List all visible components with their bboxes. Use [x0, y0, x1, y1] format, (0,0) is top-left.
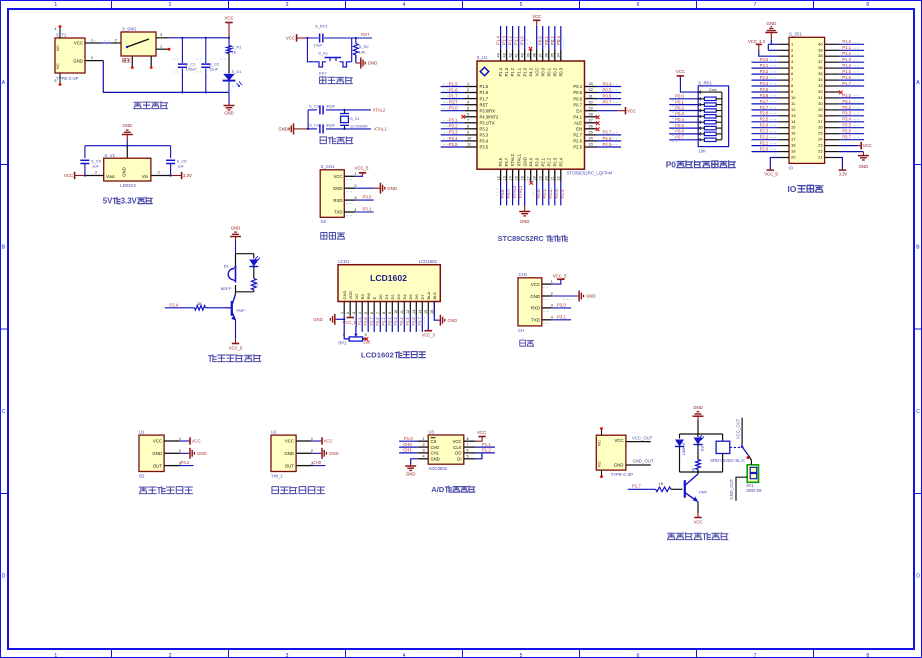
caption serial port	[520, 340, 526, 346]
pin 19 U1 bottom	[539, 169, 543, 182]
pin 10 LCD1	[394, 302, 398, 316]
pin 11 U1 left	[465, 143, 477, 147]
svg-text:P0.7: P0.7	[417, 317, 422, 325]
pin 28 U1 right	[585, 113, 597, 117]
svg-text:P3.4: P3.4	[480, 139, 489, 144]
svg-text:BZ: BZ	[139, 474, 145, 479]
svg-text:5: 5	[520, 653, 523, 658]
svg-text:14: 14	[418, 310, 422, 314]
no-connect marker U1 pin 17	[530, 181, 534, 185]
pin 27 JD1 right	[825, 121, 840, 123]
svg-text:D7: D7	[420, 294, 425, 300]
net label P3.7 U1 bottom	[506, 189, 511, 198]
compile marks RP1	[672, 100, 678, 102]
svg-text:D3: D3	[396, 294, 401, 300]
wire LED to 1K relay	[697, 445, 699, 460]
svg-text:P1.4: P1.4	[498, 67, 503, 76]
svg-text:CH0: CH0	[313, 460, 322, 465]
pin 43 U1 top	[502, 50, 506, 61]
svg-text:7: 7	[754, 653, 757, 658]
svg-text:31: 31	[818, 95, 823, 100]
svg-text:VCC: VCC	[286, 36, 295, 41]
svg-text:10uF: 10uF	[209, 67, 219, 72]
wire ldo top rail	[85, 140, 171, 158]
svg-text:VCC: VCC	[676, 69, 685, 74]
wire top rail power	[168, 37, 229, 39]
resistor R5 in RP1	[698, 121, 722, 124]
wire U1 bottom pin 12	[500, 182, 502, 206]
net label P0.0 LCD	[375, 317, 380, 326]
pin 12 JD1 left	[778, 109, 789, 111]
svg-text:S_C3: S_C3	[309, 104, 320, 109]
svg-text:P3.1: P3.1	[557, 314, 566, 319]
svg-text:P2.7: P2.7	[573, 133, 582, 138]
power port VCC power circuit	[225, 22, 233, 24]
svg-text:P2.7: P2.7	[369, 317, 374, 325]
wire XTAL1 bottom	[308, 128, 371, 130]
pin 5 LCD1	[364, 302, 368, 316]
svg-text:GND: GND	[284, 451, 294, 456]
resistor R3 in RP1	[698, 109, 722, 112]
pin 29 JD1 right	[825, 109, 840, 111]
net label P0.6 LCD	[411, 317, 416, 325]
svg-text:8: 8	[467, 437, 469, 441]
svg-text:P3.2: P3.2	[760, 69, 769, 74]
svg-text:P3.5: P3.5	[480, 145, 489, 150]
svg-text:P1.3: P1.3	[504, 67, 509, 76]
pin 9 LCD1	[388, 302, 392, 316]
svg-text:VCC: VCC	[694, 520, 703, 525]
svg-text:14: 14	[508, 176, 512, 180]
svg-text:D5: D5	[408, 294, 413, 300]
svg-text:VCC_5: VCC_5	[764, 172, 778, 177]
wire U1 top pin 43	[506, 26, 508, 50]
svg-text:D: D	[916, 574, 920, 580]
svg-text:12: 12	[791, 107, 796, 112]
svg-text:12: 12	[406, 310, 410, 314]
svg-text:2: 2	[467, 88, 469, 92]
svg-text:1: 1	[551, 280, 553, 284]
svg-text:P2.1: P2.1	[760, 141, 769, 146]
svg-text:CH1: CH1	[519, 272, 528, 277]
net label P0.3 U1 top	[556, 36, 561, 45]
svg-text:P2.3: P2.3	[554, 189, 559, 198]
svg-text:1: 1	[179, 437, 181, 441]
svg-text:NC: NC	[598, 440, 602, 446]
svg-text:2: 2	[346, 312, 350, 314]
wire U1 right pin 30	[597, 104, 622, 106]
power port VCC U1	[189, 437, 201, 444]
svg-text:GND: GND	[313, 317, 323, 322]
pin 3 JD1 left	[778, 55, 789, 57]
svg-text:LED: LED	[700, 444, 704, 452]
ground GND crystal	[278, 123, 308, 134]
junction crystal top	[343, 109, 345, 111]
svg-text:6: 6	[467, 113, 469, 117]
power port VCC_5 JD1	[764, 170, 778, 176]
svg-text:P3.3: P3.3	[842, 111, 851, 116]
svg-text:24: 24	[589, 137, 593, 141]
svg-text:P2.0: P2.0	[536, 189, 541, 198]
pin 3 LCD1	[352, 302, 356, 316]
pin 26 U1 right	[585, 125, 597, 129]
svg-text:2: 2	[95, 171, 97, 175]
svg-text:S_D1: S_D1	[232, 69, 243, 74]
svg-text:GND: GND	[520, 219, 530, 224]
caption reset circuit	[320, 77, 326, 84]
wire GND to JD1 pins 1 and 2	[768, 40, 778, 51]
wire U1 right pin 23	[597, 146, 622, 148]
svg-text:P1.2: P1.2	[508, 36, 513, 45]
pin 6 U1 left	[465, 113, 477, 117]
wire U1 bottom pin 18	[536, 182, 538, 206]
wire LED to resistor alarm	[253, 267, 255, 279]
svg-text:1K: 1K	[232, 50, 237, 55]
net label VCC_OUT vertical	[735, 418, 740, 439]
svg-text:GND: GND	[197, 451, 207, 456]
wire U1 top pin 35	[554, 26, 556, 50]
svg-text:P2.7: P2.7	[603, 130, 612, 135]
svg-text:10K: 10K	[359, 50, 366, 55]
svg-text:P0.0: P0.0	[538, 36, 543, 45]
svg-text:8: 8	[467, 125, 469, 129]
svg-text:VDD: VDD	[348, 291, 353, 300]
no-connect marker RP1 right	[365, 337, 369, 341]
svg-text:P1.2: P1.2	[482, 448, 491, 453]
svg-text:100uF: 100uF	[186, 67, 198, 72]
svg-text:21: 21	[818, 155, 823, 160]
wire JD1 right pin 38	[840, 55, 865, 57]
power port VCC reset	[286, 34, 308, 41]
pin 25 JD1 right	[825, 133, 840, 135]
pin 3 CH1	[542, 304, 553, 308]
svg-text:OUT: OUT	[285, 463, 294, 468]
svg-text:29: 29	[589, 106, 593, 110]
power port VCC_5 LCD BLA	[422, 315, 436, 337]
svg-text:D: D	[2, 574, 6, 580]
svg-text:18: 18	[791, 143, 796, 148]
net label XTAL2 U1 bottom	[512, 185, 517, 198]
svg-text:40: 40	[521, 53, 525, 57]
svg-text:P1.1: P1.1	[482, 442, 491, 447]
svg-text:VCC: VCC	[627, 108, 636, 113]
wire LCD pin 6	[373, 315, 375, 332]
svg-text:D1: D1	[384, 294, 389, 300]
svg-text:P3.1: P3.1	[449, 118, 458, 123]
svg-text:P1.5: P1.5	[480, 84, 489, 89]
svg-text:RW: RW	[366, 293, 371, 300]
connector S_CH1	[320, 164, 344, 224]
svg-text:P0.6: P0.6	[573, 96, 582, 101]
pin 30 JD1 right	[825, 103, 840, 105]
svg-text:P3.3: P3.3	[449, 130, 458, 135]
wire JD1 right pin 34	[840, 79, 865, 81]
svg-text:VCC_3.3: VCC_3.3	[748, 39, 766, 44]
capacitor S_C6 1uF	[166, 159, 187, 176]
net label P2.5 LCD	[357, 317, 362, 325]
wire R1 to D1	[228, 54, 230, 74]
ground GND ldo top	[122, 123, 133, 140]
svg-text:7: 7	[467, 443, 469, 447]
wire U1 pin3 OUT	[180, 465, 194, 467]
svg-text:GND: GND	[859, 164, 869, 169]
svg-text:P0.2: P0.2	[550, 36, 555, 45]
wire JD1 right pin 39	[840, 49, 865, 51]
compile marks power	[173, 58, 179, 60]
wire U1 EA to VCC	[597, 110, 618, 112]
svg-text:LD03V3: LD03V3	[120, 183, 136, 188]
wire P0.5 to RP1	[669, 127, 699, 129]
svg-text:7: 7	[376, 312, 380, 314]
caption alarm circuit	[209, 355, 217, 362]
wire JD1 right pin 35	[840, 73, 865, 75]
pin 3 U1	[164, 461, 181, 465]
svg-text:3: 3	[352, 312, 356, 314]
resistor 1K relay	[692, 460, 701, 473]
svg-text:GND: GND	[278, 127, 288, 132]
power port VCC_5 LCD VDD	[343, 315, 357, 325]
svg-text:P1.2: P1.2	[842, 51, 851, 56]
wire reset right branch	[351, 38, 353, 62]
svg-text:30: 30	[589, 100, 593, 104]
wire U2 pin1 VCC	[312, 440, 321, 442]
svg-text:2: 2	[179, 449, 181, 453]
svg-text:XTAL2: XTAL2	[510, 153, 515, 166]
svg-text:P3.0: P3.0	[449, 106, 458, 111]
svg-text:VCC: VCC	[531, 282, 540, 287]
wire VCC to RP1 common	[680, 76, 699, 92]
svg-text:7: 7	[754, 2, 757, 8]
resistor 1K relay base	[656, 481, 671, 492]
wire JD1 left pin 13	[752, 115, 779, 117]
svg-text:B1: B1	[224, 264, 230, 269]
svg-text:1uF: 1uF	[92, 164, 99, 169]
module U1 body	[139, 430, 164, 479]
wire VCC to switch	[101, 42, 111, 44]
junction VCC rail	[228, 37, 230, 39]
svg-text:GND: GND	[767, 21, 777, 26]
wire JD1 pin23 VCC	[840, 145, 858, 147]
svg-text:PNP: PNP	[699, 489, 708, 494]
pin 29 U1 right	[585, 106, 597, 110]
ground GND serial	[578, 291, 596, 302]
svg-text:P0.4: P0.4	[399, 317, 404, 326]
ground GND main chip	[519, 206, 530, 224]
svg-text:5: 5	[467, 106, 469, 110]
pin 4 LCD1	[358, 302, 362, 316]
svg-text:P2.4: P2.4	[169, 302, 178, 307]
wire LCD pin 9	[391, 315, 393, 332]
svg-text:1N4007: 1N4007	[682, 442, 686, 455]
pin 4 U1 left	[465, 100, 477, 104]
wire VCC_5 JD1 pin20	[770, 158, 778, 171]
svg-text:LCD1: LCD1	[338, 259, 350, 264]
junction bottom rail C2	[205, 91, 207, 93]
svg-text:GND: GND	[73, 58, 83, 63]
svg-text:RXD: RXD	[333, 198, 342, 203]
pin 22 U1 bottom	[557, 169, 561, 182]
svg-text:2: 2	[91, 56, 93, 60]
svg-text:IO: IO	[789, 166, 794, 171]
LED D2 alarm	[249, 256, 260, 267]
wire JD1 left pin 15	[752, 127, 779, 129]
svg-text:LCD1602: LCD1602	[361, 351, 394, 360]
svg-text:BLA: BLA	[426, 292, 431, 300]
caption power circuit	[134, 102, 142, 108]
pin 1 U3 left	[418, 437, 429, 441]
svg-text:15: 15	[791, 125, 796, 130]
svg-text:P1.7: P1.7	[449, 93, 458, 98]
svg-text:P2.3: P2.3	[552, 157, 557, 166]
svg-text:3: 3	[365, 333, 367, 337]
svg-text:P1.7: P1.7	[632, 484, 641, 489]
svg-text:P3.0: P3.0	[557, 303, 566, 308]
svg-text:4: 4	[551, 316, 553, 320]
svg-text:P2.0: P2.0	[534, 157, 539, 166]
resistor 1K alarm base	[195, 301, 226, 310]
svg-text:4: 4	[423, 454, 425, 458]
svg-text:P3.0/RX: P3.0/RX	[480, 108, 496, 113]
svg-text:GND: GND	[693, 405, 703, 410]
net label P2.3 U1 bottom	[554, 189, 559, 198]
wire U1 right pin 25	[597, 134, 622, 136]
net label P0.5 LCD	[405, 317, 410, 325]
svg-text:P3.0: P3.0	[363, 195, 372, 200]
wire relay bottom rail	[680, 470, 723, 475]
svg-text:6: 6	[370, 312, 374, 314]
svg-text:P1.2: P1.2	[510, 67, 515, 76]
svg-text:P1.6: P1.6	[842, 75, 851, 80]
diode D3 1N4007	[675, 440, 686, 473]
resistor R8 in RP1	[698, 138, 722, 141]
svg-text:2: 2	[115, 39, 117, 43]
no-connect marker contact	[747, 456, 750, 459]
module U2 body	[271, 430, 296, 479]
net label P2.1 U1 bottom	[542, 189, 547, 198]
svg-text:P1.5: P1.5	[449, 81, 458, 86]
pin 20 U1 bottom	[545, 169, 549, 182]
pin 9 JD1 left	[778, 91, 789, 93]
pin 2 CH1	[542, 292, 553, 296]
svg-text:23: 23	[589, 143, 593, 147]
pin 4 CH1	[542, 316, 553, 320]
net label P0.7 LCD	[417, 317, 422, 325]
svg-text:3.3V: 3.3V	[183, 173, 192, 178]
pin 1 S_T1 VCC	[85, 39, 101, 44]
wire LCD pin 14	[421, 315, 423, 332]
svg-text:22: 22	[557, 176, 561, 180]
net label P2.7 LCD	[369, 317, 374, 325]
connector S_T2 TYPE-C-2P relay	[596, 430, 633, 477]
svg-text:27: 27	[589, 119, 593, 123]
wire pin2 to GND	[355, 187, 375, 189]
svg-text:P0.3: P0.3	[393, 317, 398, 325]
pin 2 U1	[164, 449, 181, 453]
svg-text:P3.4: P3.4	[760, 81, 769, 86]
svg-text:P2.2: P2.2	[546, 157, 551, 166]
pin 26 JD1 right	[825, 127, 840, 129]
pin 1 LCD1	[340, 302, 344, 316]
wire U3 CLK P1.1	[476, 446, 495, 448]
relay contact arm	[741, 445, 749, 455]
svg-text:32: 32	[589, 88, 593, 92]
pin 31 JD1 right	[825, 97, 840, 99]
LED S_D1	[223, 69, 243, 87]
wire U1 top pin 34	[560, 26, 562, 50]
pin 15 U1 bottom	[515, 169, 519, 182]
pin 35 U1 top	[551, 50, 555, 61]
wire JD1 pin22 GND	[840, 151, 864, 153]
pin 11 LCD1	[400, 302, 404, 316]
svg-text:28: 28	[589, 113, 593, 117]
pin 44 U1 top	[496, 50, 500, 61]
pin 10 U1 left	[465, 137, 477, 141]
svg-text:NC: NC	[56, 45, 60, 51]
svg-text:37: 37	[539, 53, 543, 57]
pin 10 JD1 left	[778, 97, 789, 99]
net label P2.0 U1 bottom	[536, 189, 541, 198]
svg-text:S_RP1: S_RP1	[698, 80, 712, 85]
svg-text:P0.3: P0.3	[558, 67, 563, 76]
power port 3.3V ldo output	[171, 172, 192, 179]
pushbutton S_K1 KEY	[314, 51, 352, 76]
svg-text:STC89C52RC: STC89C52RC	[498, 234, 544, 243]
svg-text:GND_OUT: GND_OUT	[633, 459, 654, 464]
svg-text:P1.0: P1.0	[404, 436, 413, 441]
transistor Q2 PNP relay	[685, 474, 708, 502]
relay contact dashed	[730, 446, 740, 448]
svg-text:1: 1	[160, 45, 162, 49]
svg-text:P1.0: P1.0	[522, 67, 527, 76]
ground GND U2	[321, 448, 339, 459]
net label P1.2 U1 top	[508, 36, 513, 45]
ground GND JD1 top	[765, 21, 777, 39]
wire U3 DI joins DO	[476, 453, 482, 459]
svg-text:3.3V: 3.3V	[121, 197, 138, 206]
net label P1.0 U1 top	[520, 36, 525, 45]
svg-text:P0.5: P0.5	[573, 90, 582, 95]
svg-text:4: 4	[354, 208, 356, 212]
svg-text:P0.1: P0.1	[544, 36, 549, 45]
wire JD1 left pin 8	[752, 85, 779, 87]
svg-text:5: 5	[467, 454, 469, 458]
buzzer B1 BEEP	[221, 264, 236, 292]
pin 20 JD1 left	[778, 157, 789, 159]
wire LCD pin 7	[379, 315, 381, 332]
pin 13 LCD1	[412, 302, 416, 316]
svg-text:40: 40	[818, 41, 823, 46]
no-connect marker U1 pin 39	[529, 47, 533, 51]
svg-text:P3.6: P3.6	[842, 129, 851, 134]
wire U1 VCC pin	[536, 26, 538, 50]
wire LCD pin 12	[409, 315, 411, 332]
svg-text:3: 3	[160, 33, 162, 37]
pin 42 U1 top	[508, 50, 512, 61]
svg-text:P4.3/INT2: P4.3/INT2	[480, 115, 500, 120]
svg-text:GND: GND	[329, 451, 339, 456]
wire U1 bottom pin 14	[512, 182, 514, 206]
pin 7 U1 left	[465, 119, 477, 123]
pin 19 JD1 left	[778, 151, 789, 153]
svg-text:31: 31	[589, 94, 593, 98]
svg-text:2: 2	[169, 2, 172, 8]
wire U1 bottom pin 15	[518, 182, 520, 206]
wire P0.0 to RP1	[669, 98, 699, 100]
svg-text:S_SW1: S_SW1	[122, 27, 137, 32]
wire U1 left pin 10	[441, 140, 465, 142]
svg-text:S_C4: S_C4	[309, 123, 320, 128]
svg-text:3: 3	[158, 171, 160, 175]
